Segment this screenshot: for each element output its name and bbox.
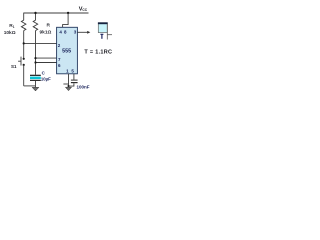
svg-text:9k1Ω: 9k1Ω: [40, 30, 52, 36]
background: [0, 0, 120, 95]
wire 100nF bottom lead: [69, 83, 74, 86]
svg-text:CC: CC: [82, 8, 87, 12]
ground left: [32, 86, 39, 91]
junction dot rail/supply: [67, 12, 69, 14]
junction dot R/pin7: [34, 57, 36, 59]
wire pin6: [36, 62, 57, 64]
wire supply drop to pins 4,8: [63, 13, 69, 27]
wire C bottom lead: [35, 81, 37, 86]
svg-text:10µF: 10µF: [41, 76, 51, 81]
op-amp/timer U1 555: [57, 27, 78, 74]
junction dot R1/pin2/switch: [23, 42, 25, 44]
wire pin7: [36, 57, 57, 59]
junction dot R/pin6: [34, 61, 36, 63]
pulse box: [98, 22, 112, 39]
wire bottom: [24, 85, 36, 87]
svg-text:1: 1: [13, 25, 15, 29]
junction dot ground/100nF: [67, 85, 69, 87]
wire pin5 lead: [73, 74, 75, 80]
switch S1: [18, 57, 25, 86]
resistor R1: [21, 13, 26, 59]
wire Vcc top rail: [24, 12, 89, 14]
junction dot rail/R: [34, 12, 36, 14]
svg-text:R: R: [47, 22, 51, 28]
svg-text:555: 555: [62, 48, 71, 54]
capacitor 100nF plates: [71, 80, 78, 81]
svg-text:10kΩ: 10kΩ: [4, 30, 16, 36]
wire pin3 output with arrow: [77, 31, 87, 33]
capacitor C plates: [30, 75, 41, 76]
label T under pulse: [100, 34, 103, 39]
svg-text:S1: S1: [11, 64, 17, 69]
ground right: [65, 87, 71, 91]
wire pin1 ground bar: [63, 83, 68, 85]
svg-text:T = 1.1RC: T = 1.1RC: [84, 50, 112, 56]
svg-text:100nF: 100nF: [77, 85, 90, 90]
wire pin2: [24, 42, 57, 44]
resistor R: [33, 13, 38, 75]
wire pin1 to ground: [68, 74, 70, 87]
